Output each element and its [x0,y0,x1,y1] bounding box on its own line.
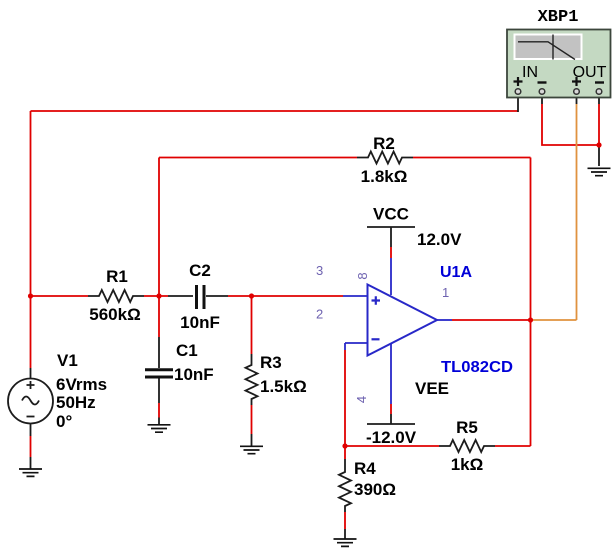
op-amp U1A [343,247,452,414]
pin 3 number [316,263,323,278]
ground below C1 [148,425,171,432]
resistor R3 [246,354,258,446]
svg-text:10nF: 10nF [180,313,220,332]
svg-text:8: 8 [355,272,370,279]
R5 value label [451,455,484,474]
XBP1 polarity marks [514,77,605,86]
VEE value label [366,428,417,447]
C2 value label [180,313,220,332]
VCC value label [417,230,462,249]
ground below R3 [240,446,263,453]
XBP1 screen [514,34,583,61]
svg-text:IN: IN [522,64,538,81]
svg-text:-12.0V: -12.0V [366,428,417,447]
R5 label [456,418,478,437]
wire R2 feedback rail horizontal [159,157,531,159]
pin 8 number rotated [355,272,370,279]
svg-text:4: 4 [354,396,369,403]
svg-text:390Ω: 390Ω [354,480,396,499]
node output junction [528,317,533,322]
svg-text:C1: C1 [176,341,198,360]
AC source V1 [8,368,53,469]
wire V1 node down to V1 source [30,296,32,368]
svg-text:0°: 0° [56,412,72,431]
svg-text:1.8kΩ: 1.8kΩ [361,167,408,186]
R4 label [354,459,376,478]
capacitor C2 [168,285,228,309]
wire feedback node to R5 [345,445,439,447]
wire node B down to R3 [251,296,253,354]
svg-text:OUT: OUT [573,64,607,81]
node XBP1 ground junction [596,142,601,147]
R1 label [106,267,128,286]
svg-text:VCC: VCC [373,205,409,224]
svg-text:R3: R3 [260,353,282,372]
svg-text:12.0V: 12.0V [417,230,462,249]
node B junction [249,293,254,298]
C2 label [189,261,211,280]
svg-text:6Vrms: 6Vrms [56,375,107,394]
wire node B to op-amp noninverting input [252,295,344,297]
svg-text:R4: R4 [354,459,376,478]
VCC power rail [367,227,415,247]
C1 label [176,341,198,360]
svg-text:R1: R1 [106,267,128,286]
svg-text:V1: V1 [57,351,78,370]
wire XBP1 IN- down and right to ground node [542,94,599,145]
wire R5 to output vertical [495,445,531,447]
pin 4 number rotated [354,396,369,403]
svg-text:R5: R5 [456,418,478,437]
wire R1 to C2 [144,295,168,297]
pin 1 number [442,285,449,300]
R4 value label [354,480,396,499]
wire main rail V1 node to R1 [31,295,89,297]
XBP1 terminals [515,89,602,95]
svg-text:3: 3 [316,263,323,278]
resistor R2 [357,152,413,164]
svg-text:TL082CD: TL082CD [441,359,513,376]
ground below V1 [19,469,42,476]
U1A label [440,264,472,281]
svg-text:C2: C2 [189,261,211,280]
wire node A down to C1 [158,296,160,337]
VEE label [415,379,449,398]
ground below R4 [334,539,357,546]
node A junction [156,293,161,298]
wire inverting input vertical to feedback node [344,350,346,446]
wire C2 to node B [228,295,252,297]
VCC label [373,205,409,224]
svg-text:560kΩ: 560kΩ [89,305,140,324]
capacitor C1 [145,337,173,425]
resistor R5 [439,440,495,452]
Bode plotter XBP1 body [507,30,611,98]
wire output node down to R5 [530,320,532,446]
svg-text:1.5kΩ: 1.5kΩ [260,377,307,396]
svg-text:10nF: 10nF [174,365,214,384]
U1A part number label [441,359,513,376]
svg-text:1: 1 [442,285,449,300]
wire XBP1 OUT+ orange to op-amp output [531,94,577,320]
R2 value label [361,167,408,186]
svg-text:R2: R2 [373,134,395,153]
wire XBP1 ground node to ground [598,145,600,166]
V1 label [57,351,78,370]
wire top rail from left rail to XBP1 IN+ [31,110,519,112]
VEE power rail [367,414,415,424]
svg-text:2: 2 [316,307,323,322]
svg-text:XBP1: XBP1 [538,8,579,27]
XBP1 IN label [522,64,538,81]
wire op-amp output to output node [452,319,531,321]
resistor R4 [339,446,351,539]
ground below XBP1 [588,168,611,175]
wire XBP1 IN+ down to top rail [517,94,519,112]
svg-text:1kΩ: 1kΩ [451,455,484,474]
svg-text:50Hz: 50Hz [56,393,96,412]
R3 label [260,353,282,372]
resistor R1 [88,290,144,302]
R3 value label [260,377,307,396]
R1 value label [89,305,140,324]
wire XBP1 OUT- down to ground node [598,94,600,145]
V1 value labels [56,375,107,431]
node V1 top junction [28,293,33,298]
wire left vertical rail [30,111,32,296]
node feedback junction [342,443,347,448]
R2 label [373,134,395,153]
C1 value label [174,365,214,384]
pin 2 number [316,307,323,322]
XBP1 label [538,8,579,27]
wire R2 left vertical down to node A [158,158,160,297]
svg-text:U1A: U1A [440,264,472,281]
wire R2 right vertical down to output node [530,158,532,321]
svg-text:VEE: VEE [415,379,449,398]
XBP1 OUT label [573,64,607,81]
